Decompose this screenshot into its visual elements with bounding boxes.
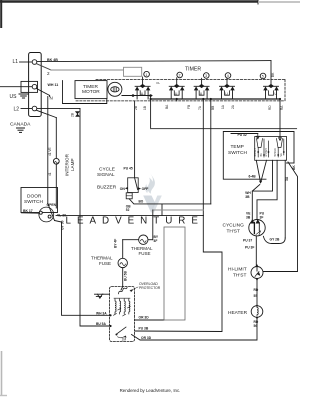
svg-text:OPEN: OPEN — [47, 203, 57, 207]
svg-text:PU 3B: PU 3B — [139, 327, 149, 331]
wire buzzer out — [129, 199, 162, 204]
wire drop PU45 — [134, 101, 136, 178]
svg-text:2B: 2B — [71, 113, 75, 117]
timer contact 4 — [220, 73, 235, 99]
svg-text:3B: 3B — [246, 215, 251, 219]
junction dots on timer bus — [150, 98, 152, 100]
wire node1 WH3B — [252, 185, 259, 222]
svg-text:PU 32: PU 32 — [238, 133, 247, 137]
svg-text:L1: L1 — [13, 59, 19, 65]
svg-text:CYCLING: CYCLING — [223, 223, 245, 229]
wire fuse riser — [152, 210, 154, 240]
temp switch inner box — [255, 137, 287, 161]
wire BK3A diagonal — [263, 162, 298, 272]
terminal block TB1 — [29, 53, 42, 117]
svg-text:1: 1 — [145, 73, 147, 77]
svg-text:PU 37: PU 37 — [243, 239, 252, 243]
svg-text:RA: RA — [280, 105, 284, 110]
svg-text:FL: FL — [157, 81, 161, 85]
svg-text:7A: 7A — [198, 105, 202, 110]
timer contact 5 — [260, 61, 278, 99]
temp switch contacts — [254, 139, 285, 158]
wire L1 stub — [20, 61, 32, 63]
thermal fuse TF1 — [122, 240, 124, 259]
temp switch box — [223, 132, 294, 180]
svg-text:55: 55 — [254, 294, 258, 298]
svg-text:4F: 4F — [154, 239, 158, 243]
svg-text:BY 4F: BY 4F — [114, 239, 118, 248]
cycle signal switch — [128, 178, 139, 193]
svg-text:FUSE: FUSE — [99, 261, 111, 266]
svg-text:VE: VE — [280, 153, 283, 157]
svg-text:PU 45: PU 45 — [124, 167, 133, 171]
wire contact arm L2 — [36, 110, 56, 117]
svg-text:BU 5A: BU 5A — [96, 322, 107, 326]
svg-text:TIMER: TIMER — [185, 67, 201, 73]
svg-text:WH 3A: WH 3A — [96, 311, 107, 315]
svg-text:BO: BO — [139, 200, 144, 204]
motor box — [110, 287, 135, 342]
wire lamp drop — [55, 118, 57, 159]
wire stub left — [22, 212, 40, 214]
svg-text:SWITCH: SWITCH — [24, 199, 43, 205]
svg-text:BK 17: BK 17 — [23, 209, 33, 213]
svg-text:OR 3D: OR 3D — [141, 336, 152, 340]
wire L2 stub — [21, 108, 32, 110]
wire contact arm 2 (gray) — [36, 64, 51, 70]
timer motor TM — [108, 82, 122, 96]
timer contact 2 — [157, 72, 185, 101]
svg-text:BB: BB — [211, 106, 215, 110]
svg-text:BK 4B: BK 4B — [47, 58, 58, 62]
svg-text:3A: 3A — [285, 176, 289, 181]
svg-text:RD: RD — [268, 105, 272, 110]
wire L2 to right — [37, 107, 80, 109]
connector symbol 2B — [76, 112, 80, 117]
svg-text:WH 11: WH 11 — [48, 83, 59, 87]
svg-text:4: 4 — [227, 74, 229, 78]
wire timer bus2 — [150, 96, 152, 129]
wire drop c3b — [210, 99, 212, 204]
thermal fuse TF2 — [139, 235, 148, 244]
wire hilimit to heater — [256, 279, 258, 306]
svg-text:GY 30: GY 30 — [61, 220, 65, 230]
svg-text:41 VE: 41 VE — [48, 147, 52, 156]
switch mech — [39, 207, 54, 222]
door switch DS — [21, 188, 58, 213]
connector P1 — [124, 67, 142, 76]
svg-text:TIMER: TIMER — [83, 84, 98, 90]
wire TF1 to motor — [122, 268, 124, 287]
wire US neutral — [0, 86, 32, 88]
svg-text:U: U — [275, 92, 278, 96]
watermark logo — [143, 174, 162, 214]
wire node2 lead — [257, 160, 277, 221]
svg-text:FUSE: FUSE — [139, 251, 151, 256]
TIMER dashed box — [76, 80, 285, 101]
wire door sw down GY30 — [55, 221, 110, 316]
svg-text:OR 3D: OR 3D — [139, 316, 150, 320]
svg-text:TH'ST: TH'ST — [233, 272, 247, 278]
svg-text:LEADVENTURE: LEADVENTURE — [66, 216, 204, 227]
main schematic — [0, 53, 298, 342]
svg-text:ON: ON — [120, 187, 126, 191]
svg-text:HEATER: HEATER — [228, 310, 248, 316]
svg-text:WH/RD: WH/RD — [274, 148, 277, 156]
svg-text:3: 3 — [205, 74, 207, 78]
svg-text:5: 5 — [262, 75, 264, 79]
wire door sw out right — [56, 214, 203, 216]
svg-text:OFF: OFF — [142, 187, 149, 191]
svg-text:41: 41 — [48, 172, 52, 176]
terminal L2 — [32, 106, 37, 111]
wire gray h210 — [153, 209, 204, 211]
svg-text:3F: 3F — [260, 215, 264, 219]
harness duct rectangle — [164, 227, 185, 320]
terminal N — [32, 84, 37, 89]
svg-text:BUZZER: BUZZER — [97, 185, 117, 191]
svg-text:L2: L2 — [14, 107, 20, 113]
svg-text:1A: 1A — [221, 104, 225, 109]
ground US — [19, 94, 28, 98]
svg-text:FB: FB — [187, 105, 191, 109]
svg-text:6-4B: 6-4B — [249, 175, 257, 179]
svg-text:LAMP: LAMP — [70, 158, 75, 171]
wire L1 bus BK 4B — [37, 61, 271, 62]
wire timer5 to temp switch — [279, 99, 281, 137]
wire gray bus to timer — [51, 69, 124, 71]
wire PU3B right — [135, 215, 223, 331]
svg-text:1M: 1M — [122, 338, 127, 342]
svg-text:2A: 2A — [231, 104, 235, 109]
wire N drop to door switch — [49, 95, 51, 96]
timer motor box — [75, 81, 107, 99]
svg-text:BK: BK — [271, 72, 275, 77]
svg-text:SIGNAL: SIGNAL — [97, 172, 115, 178]
connector US box — [21, 81, 38, 92]
svg-text:TEMP: TEMP — [231, 144, 244, 150]
temp switch V contact — [256, 160, 266, 180]
svg-text:BK: BK — [292, 165, 296, 170]
wire L2 down at x80 — [80, 108, 110, 326]
wire OR3D right — [135, 319, 165, 321]
svg-text:TH'ST: TH'ST — [227, 228, 241, 234]
lamp interior — [53, 158, 59, 164]
svg-text:MOTOR: MOTOR — [82, 89, 100, 95]
svg-text:52: 52 — [126, 208, 130, 212]
svg-text:RD: RD — [254, 288, 259, 292]
svg-text:SWITCH: SWITCH — [228, 150, 247, 156]
overload protector — [119, 287, 128, 294]
wire mid h204 — [162, 203, 211, 205]
wire heater bottom — [132, 317, 258, 340]
terminal L1 — [32, 60, 37, 65]
svg-text:BU 5B: BU 5B — [124, 270, 128, 281]
svg-text:GY/WH: GY/WH — [265, 148, 268, 156]
svg-text:2: 2 — [47, 71, 50, 76]
svg-text:INTERIOR: INTERIOR — [65, 153, 70, 176]
wire cycling to hilimit — [255, 236, 257, 267]
svg-text:Rendered by LeadVenture, Inc.: Rendered by LeadVenture, Inc. — [120, 388, 181, 393]
buzzer element — [126, 193, 132, 199]
wire drop c3a — [202, 99, 204, 215]
svg-text:BA: BA — [165, 104, 169, 109]
hi-limit thermostat — [251, 264, 263, 281]
heater — [251, 304, 263, 320]
wire motor bus — [122, 95, 152, 97]
svg-text:US: US — [10, 94, 18, 100]
svg-text:3B: 3B — [245, 195, 250, 199]
ground CANADA — [17, 128, 25, 132]
svg-text:PROTECTOR: PROTECTOR — [139, 286, 161, 290]
timer contact 1 — [135, 71, 150, 99]
svg-text:BU: BU — [260, 153, 263, 157]
motor windings — [114, 298, 131, 316]
svg-text:RD/WH: RD/WH — [254, 148, 257, 156]
ground motor — [103, 293, 110, 295]
svg-text:DOOR: DOOR — [27, 193, 42, 199]
svg-text:CYCLE: CYCLE — [99, 167, 115, 173]
wire GY2B right — [284, 160, 286, 238]
wire contact arm N — [36, 88, 49, 95]
svg-text:HI-LIMIT: HI-LIMIT — [228, 267, 247, 273]
timer contact 3 — [194, 73, 209, 99]
centrifugal switch — [116, 327, 126, 335]
svg-text:CANADA: CANADA — [10, 122, 31, 128]
svg-text:1B: 1B — [143, 106, 147, 110]
svg-text:GY 2B: GY 2B — [270, 237, 280, 241]
cycling thermostat — [249, 220, 265, 236]
svg-text:2: 2 — [179, 74, 181, 78]
wire long bus y128.6 — [151, 128, 297, 130]
svg-text:PU 3F: PU 3F — [245, 246, 254, 250]
